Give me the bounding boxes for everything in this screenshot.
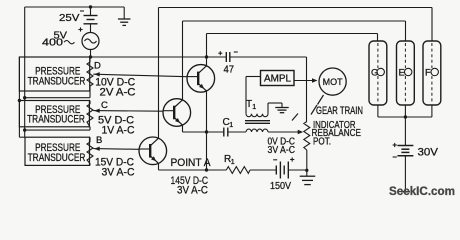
svg-text:TRANSDUCER: TRANSDUCER — [28, 152, 86, 164]
svg-text:2V A-C: 2V A-C — [100, 86, 136, 98]
svg-text:E: E — [399, 67, 405, 78]
svg-text:MOT: MOT — [323, 77, 343, 88]
svg-text:T: T — [246, 99, 252, 110]
svg-text:1V A-C: 1V A-C — [102, 124, 135, 136]
svg-text:C: C — [101, 100, 108, 111]
svg-text:1: 1 — [231, 159, 235, 166]
svg-text:SeekIC.com: SeekIC.com — [389, 184, 455, 198]
svg-text:1: 1 — [252, 104, 256, 111]
svg-text:TRANSDUCER: TRANSDUCER — [28, 76, 86, 88]
svg-text:3V A-C: 3V A-C — [268, 145, 296, 156]
svg-text:GEAR TRAIN: GEAR TRAIN — [316, 105, 363, 117]
svg-text:3V A-C: 3V A-C — [177, 184, 208, 196]
svg-text:D: D — [94, 60, 101, 71]
svg-text:30V: 30V — [418, 147, 439, 159]
svg-text:400: 400 — [42, 37, 63, 49]
svg-text:47: 47 — [224, 64, 235, 76]
svg-text:F: F — [425, 67, 431, 78]
svg-text:1: 1 — [229, 122, 233, 129]
svg-text:AMPL: AMPL — [264, 74, 291, 85]
svg-text:B: B — [96, 135, 102, 146]
svg-text:POT.: POT. — [313, 136, 331, 147]
svg-text:25V: 25V — [59, 12, 80, 24]
svg-text:3V A-C: 3V A-C — [102, 166, 135, 178]
svg-text:150V: 150V — [270, 180, 291, 192]
svg-text:POINT A: POINT A — [171, 157, 212, 169]
svg-text:TRANSDUCER: TRANSDUCER — [27, 113, 85, 125]
